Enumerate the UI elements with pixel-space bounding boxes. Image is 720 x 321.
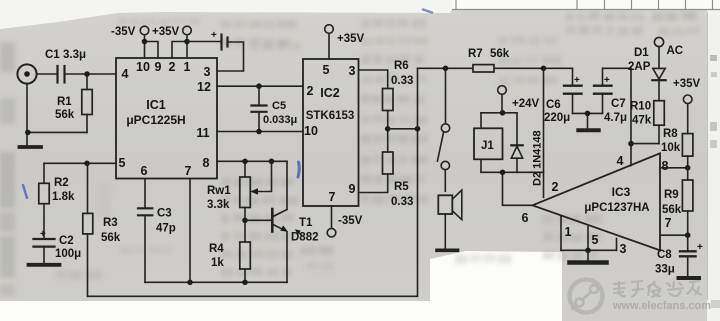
svg-text:2: 2 xyxy=(169,60,176,74)
svg-text:56k: 56k xyxy=(55,109,75,121)
svg-text:+35V: +35V xyxy=(337,33,365,45)
wire +35V to bootstrap cap xyxy=(187,41,222,43)
svg-text:56k: 56k xyxy=(101,232,121,244)
resistor R6 xyxy=(383,89,394,129)
node junction ground rail xyxy=(585,248,591,254)
-35V supply terminal (IC2 pin 7) xyxy=(327,206,336,237)
relay contact switch xyxy=(437,68,449,191)
resistor R2 xyxy=(39,163,49,238)
op-amp IC1 box xyxy=(116,58,217,179)
ground (IC3) xyxy=(570,250,607,262)
svg-text:R7: R7 xyxy=(468,48,483,60)
resistor R1 xyxy=(28,74,92,132)
svg-text:9: 9 xyxy=(155,60,162,74)
svg-text:2: 2 xyxy=(307,84,314,98)
wire IC3 pin 4 xyxy=(630,144,632,166)
resistor R5 xyxy=(359,129,394,193)
node junction speaker column xyxy=(443,66,449,72)
capacitor C5 xyxy=(252,86,267,131)
label C1 3.3u xyxy=(45,49,86,61)
wire cap to IC1 pin 3 xyxy=(217,42,244,71)
wire jack to C1 xyxy=(37,73,56,75)
svg-text:100μ: 100μ xyxy=(55,248,81,260)
svg-text:IC1: IC1 xyxy=(146,98,166,112)
wire IC3 pin 1 xyxy=(560,216,562,251)
svg-text:2AP: 2AP xyxy=(628,61,651,73)
svg-text:T1: T1 xyxy=(299,217,313,229)
svg-text:2: 2 xyxy=(552,180,559,194)
svg-text:1: 1 xyxy=(565,225,572,239)
svg-text:7: 7 xyxy=(185,164,192,178)
svg-text:+: + xyxy=(211,30,217,41)
svg-text:+24V: +24V xyxy=(512,98,540,110)
resistor R4 xyxy=(240,242,251,282)
+35V supply terminal (IC1) xyxy=(172,26,191,58)
capacitor C3 xyxy=(138,179,152,283)
svg-text:5: 5 xyxy=(592,233,599,247)
resistor R8 xyxy=(682,134,693,168)
svg-text:C5: C5 xyxy=(272,100,286,112)
svg-text:R3: R3 xyxy=(103,217,118,229)
svg-text:6: 6 xyxy=(141,164,148,178)
node junction at R1 top xyxy=(84,71,90,77)
svg-text:www.elecfans.com: www.elecfans.com xyxy=(612,300,711,312)
node junction C6/C7 ground xyxy=(585,111,591,117)
svg-text:3: 3 xyxy=(204,65,211,79)
+35V supply terminal (IC2) xyxy=(325,25,334,59)
svg-text:8: 8 xyxy=(203,156,210,170)
pin labels IC1 xyxy=(119,60,211,178)
node junction R4 bottom xyxy=(242,280,248,286)
svg-text:4: 4 xyxy=(122,67,129,81)
stray blue ink marks xyxy=(23,10,432,199)
node junction C5 top xyxy=(256,83,262,89)
svg-text:J1: J1 xyxy=(481,140,494,152)
label IC1 uPC1225H xyxy=(126,98,185,127)
wire IC1 pin 8 rail xyxy=(217,160,287,162)
node junction T1 base xyxy=(242,218,248,224)
AC input terminal xyxy=(654,37,663,46)
label R3 56k xyxy=(101,217,121,244)
+24V supply terminal xyxy=(498,86,507,113)
label R5 0.33 xyxy=(391,181,413,208)
svg-text:3: 3 xyxy=(620,242,627,256)
svg-text:7: 7 xyxy=(665,216,672,230)
label D1 2AP xyxy=(628,47,651,73)
node junction R9/C8 xyxy=(685,232,691,238)
capacitor C1 xyxy=(58,66,65,83)
label R6 0.33 xyxy=(391,60,413,87)
capacitor C6 xyxy=(564,68,582,113)
wire pins 1-5-3 ground rail xyxy=(561,249,617,251)
protector IC3 (triangle) xyxy=(533,153,661,250)
relay coil J1 xyxy=(474,113,544,173)
label C6 220u with polarity xyxy=(544,75,580,124)
label R4 1k xyxy=(209,243,224,269)
wire mute column to IC3 pin 2 xyxy=(543,68,545,197)
wire top rail to C6 xyxy=(418,67,573,69)
svg-text:4: 4 xyxy=(617,154,624,168)
wire emitter rail xyxy=(145,281,287,283)
label C3 47p xyxy=(156,208,176,235)
capacitor C7 xyxy=(594,68,612,113)
hybrid IC2 box xyxy=(303,59,359,206)
svg-text:Rw1: Rw1 xyxy=(207,185,231,197)
svg-text:9: 9 xyxy=(349,182,356,196)
svg-text:1: 1 xyxy=(184,60,191,74)
WATERMARK elecfans logo xyxy=(570,280,603,313)
wire C2 to ground xyxy=(43,247,45,263)
+35V supply terminal (right) xyxy=(683,95,692,134)
diode D2 xyxy=(511,113,522,173)
svg-text:R8: R8 xyxy=(663,128,678,140)
wire C6/C7 common xyxy=(573,112,603,114)
svg-text:1k: 1k xyxy=(211,257,224,269)
svg-text:10: 10 xyxy=(136,60,150,74)
node junction R6/R5 xyxy=(385,126,391,132)
-35V supply terminal xyxy=(140,26,158,58)
svg-text:4.7μ: 4.7μ xyxy=(604,112,627,124)
svg-text:IC2: IC2 xyxy=(320,86,340,100)
node junction pin 4 / R10 xyxy=(628,141,634,147)
wire C7 rail to pin4 column xyxy=(603,68,632,143)
ground (input jack) xyxy=(20,145,42,149)
node junction R1/R3 on pin5 rail xyxy=(84,161,90,167)
node junction R1/ground column xyxy=(25,130,31,136)
resistor R3 xyxy=(83,163,93,296)
input jack J-IN xyxy=(17,64,36,83)
wire IC1 pin 7 column xyxy=(189,179,191,283)
svg-text:C1: C1 xyxy=(45,49,60,61)
wire C1 to IC1 pin 4 xyxy=(66,73,117,75)
wire jack to ground xyxy=(26,84,28,145)
svg-text:11: 11 xyxy=(196,126,209,140)
pin labels IC3 xyxy=(522,154,672,256)
top-right spreadsheet table strip xyxy=(452,0,720,10)
svg-text:D1: D1 xyxy=(634,47,649,59)
label D2 1N4148 (rotated) xyxy=(532,130,544,186)
wire R6R5 node to feedback column xyxy=(388,128,418,130)
svg-text:-35V: -35V xyxy=(111,26,136,38)
label R9 56k xyxy=(662,189,682,216)
svg-text:C7: C7 xyxy=(611,98,626,110)
svg-text:47p: 47p xyxy=(156,223,176,235)
capacitor C2 xyxy=(34,239,55,247)
svg-text:3: 3 xyxy=(349,64,356,78)
transistor T1 xyxy=(272,161,288,282)
svg-text:220μ: 220μ xyxy=(544,112,570,124)
svg-text:R4: R4 xyxy=(209,243,224,255)
svg-text:33μ: 33μ xyxy=(655,264,675,276)
ground (C2) xyxy=(29,263,60,267)
ground (speaker) xyxy=(437,249,458,253)
pin labels IC2 xyxy=(304,63,355,204)
label R1 56k xyxy=(55,96,75,121)
svg-text:R10: R10 xyxy=(630,101,651,113)
svg-text:R5: R5 xyxy=(394,181,409,193)
svg-text:5: 5 xyxy=(119,156,126,170)
svg-text:+: + xyxy=(604,75,610,86)
svg-text:D2 1N4148: D2 1N4148 xyxy=(532,130,544,186)
svg-text:R6: R6 xyxy=(394,60,409,72)
node junction Rw1 top xyxy=(242,159,248,165)
svg-text:IC3: IC3 xyxy=(612,185,631,199)
svg-text:D882: D882 xyxy=(291,232,319,244)
ground (C8) xyxy=(679,276,700,280)
svg-text:0.33: 0.33 xyxy=(391,196,413,208)
svg-text:AC: AC xyxy=(667,45,684,57)
resistor R10 xyxy=(631,101,664,144)
capacitor C8 xyxy=(680,235,696,276)
node junction R8/R9 xyxy=(685,165,691,171)
node junction pin7 column xyxy=(187,280,193,286)
label R7 56k xyxy=(468,48,510,60)
svg-text:R9: R9 xyxy=(664,189,679,201)
svg-text:C3: C3 xyxy=(157,208,172,220)
node junction wiper riser xyxy=(269,159,275,165)
svg-text:μPC1237HA: μPC1237HA xyxy=(584,202,649,214)
svg-text:C2: C2 xyxy=(59,235,74,247)
svg-text:+35V: +35V xyxy=(673,78,701,90)
speaker SP xyxy=(438,190,462,249)
svg-text:C6: C6 xyxy=(546,99,561,111)
svg-text:R1: R1 xyxy=(57,96,72,108)
node junction relay bottom xyxy=(500,170,506,176)
label Rw1 3.3k xyxy=(207,185,231,211)
svg-text:R2: R2 xyxy=(54,177,69,189)
svg-text:6: 6 xyxy=(522,211,529,225)
label C2 100u with polarity xyxy=(40,229,81,260)
ground (C6/C7) xyxy=(578,113,598,130)
svg-text:5: 5 xyxy=(323,63,330,77)
svg-text:0.033μ: 0.033μ xyxy=(263,114,297,126)
svg-text:3.3μ: 3.3μ xyxy=(63,49,86,61)
svg-text:7: 7 xyxy=(329,190,336,204)
arrow from D882 to T1 xyxy=(295,229,303,236)
potentiometer Rw1 xyxy=(240,161,272,242)
svg-text:+: + xyxy=(697,242,703,253)
svg-text:-35V: -35V xyxy=(338,215,363,227)
svg-text:C8: C8 xyxy=(657,249,672,261)
svg-text:12: 12 xyxy=(197,80,211,94)
svg-text:1.8k: 1.8k xyxy=(52,191,75,203)
wire IC3 pin 7 xyxy=(660,234,688,236)
svg-text:10k: 10k xyxy=(661,142,681,154)
node junction mute column xyxy=(541,66,547,72)
label R10 47k xyxy=(630,101,652,127)
svg-text:μPC1225H: μPC1225H xyxy=(126,113,185,127)
wire IC3 pin 3 xyxy=(616,239,618,251)
svg-text:3.3k: 3.3k xyxy=(207,199,230,211)
wire IC3 pin 5 xyxy=(587,227,589,251)
resistor R9 xyxy=(682,168,693,235)
svg-text:+: + xyxy=(574,75,580,86)
wire IC3 pin 8 xyxy=(660,167,688,169)
wire feedback bus bottom xyxy=(88,129,418,296)
svg-text:STK6153: STK6153 xyxy=(306,110,355,122)
wire IC1 pin 5 rail xyxy=(44,162,116,164)
wire IC2 pin 3 to R6 xyxy=(359,70,388,89)
wire relay node to IC3 pin 6 xyxy=(503,172,533,205)
svg-text:56k: 56k xyxy=(490,48,510,60)
label C5 0.033u xyxy=(263,100,297,126)
svg-text:+: + xyxy=(40,229,46,240)
label R8 10k xyxy=(661,128,681,154)
bootstrap capacitor (unlabeled, polarized) xyxy=(222,35,228,50)
wire base feed xyxy=(245,219,271,221)
WATERMARK pseudo chinese glyphs (dian zi fa shao you) xyxy=(613,281,702,297)
label C8 33u with polarity xyxy=(655,242,703,276)
wire IC1 pin 12 to IC2 pin 2 xyxy=(217,85,303,87)
svg-text:56k: 56k xyxy=(662,204,682,216)
node junction relay top xyxy=(500,110,506,116)
svg-text:10: 10 xyxy=(304,124,318,138)
svg-text:0.33: 0.33 xyxy=(391,75,413,87)
svg-text:+35V: +35V xyxy=(152,26,180,38)
label T1 D882 xyxy=(291,217,319,244)
resistor R7 (horizontal) xyxy=(473,65,494,72)
svg-text:8: 8 xyxy=(662,159,669,173)
node junction C5 bottom xyxy=(256,129,262,135)
svg-text:47k: 47k xyxy=(632,115,652,127)
wire IC1 pin 11 to IC2 pin 10 xyxy=(217,131,303,133)
label C7 4.7u with polarity xyxy=(604,75,627,124)
diode D1 xyxy=(652,47,665,101)
label IC2 STK6153 xyxy=(306,86,355,122)
wire feedback column up xyxy=(417,68,419,129)
label IC3 uPC1237HA xyxy=(584,185,649,214)
label R2 1.8k xyxy=(52,177,75,203)
node junction feedback column xyxy=(415,126,421,132)
